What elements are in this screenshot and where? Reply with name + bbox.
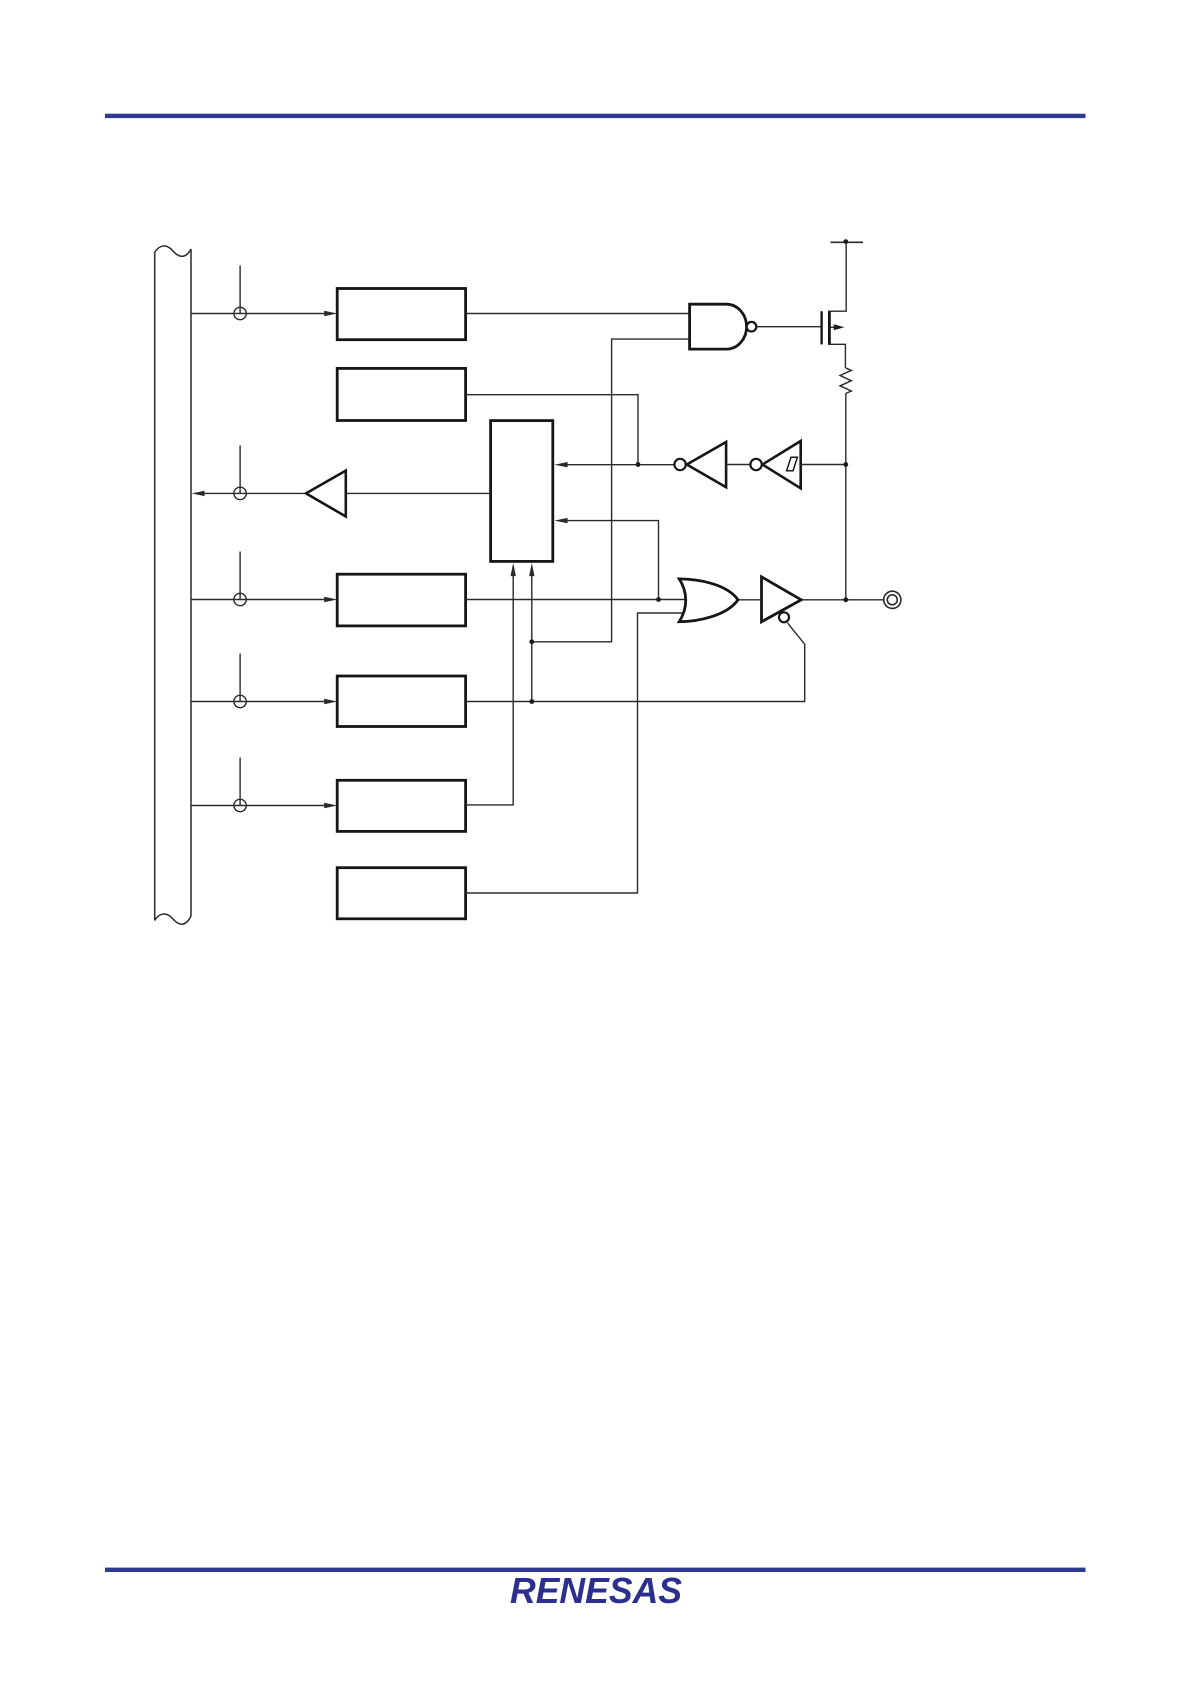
junction dot NAND-B / box4 feed (529, 639, 534, 644)
junction dot box3 line (656, 597, 661, 602)
wire mux output to read buffer (346, 492, 491, 494)
register box 4 (337, 676, 465, 727)
PMOS drain stub (829, 344, 845, 368)
junction dot output line (843, 597, 848, 602)
wire mux input 2 (566, 521, 659, 600)
header rule (105, 114, 1086, 118)
register box 1 (337, 289, 465, 340)
multiplexer block (491, 421, 553, 562)
NAND output bubble (747, 322, 757, 332)
tri-state control bubble (779, 612, 789, 622)
bus tap row 2 (from read buffer, arrow into bus) (202, 445, 306, 499)
bus tap row 5 (to box5) (191, 758, 328, 812)
bus tap row 4 (to box4) (191, 654, 328, 708)
Renesas logo (510, 1570, 682, 1611)
wire schmitt input from pad node (801, 464, 846, 466)
PMOS body arrow (831, 326, 837, 328)
read buffer triangle (306, 471, 346, 517)
PMOS transistor (822, 311, 830, 345)
wire box2 output (466, 395, 638, 465)
VCC junction dot (843, 239, 848, 244)
junction dot box2 line (636, 462, 641, 467)
I/O pad (884, 591, 901, 608)
PMOS source stub to VCC (829, 242, 846, 311)
register box 5 (337, 780, 465, 831)
footer rule (105, 1568, 1086, 1572)
wire box3 output to OR gate (466, 599, 690, 601)
schmitt input bubble (750, 459, 761, 470)
register box 6 (337, 868, 465, 919)
wire box1 to NAND input A (466, 313, 690, 315)
tri-state output buffer (762, 577, 802, 622)
register box 3 (337, 574, 465, 626)
pull-up resistor (840, 368, 851, 394)
inverter 1 input bubble (674, 459, 685, 470)
bus tap row 1 (to box1) (191, 266, 328, 320)
junction dot box4 line (529, 699, 534, 704)
wire box4 output to tri-state control (466, 623, 805, 702)
internal data bus (155, 246, 191, 924)
wire inverter chain to mux (566, 464, 674, 466)
wire NAND output to PMOS gate (756, 326, 820, 328)
wire pull-up node vertical (845, 394, 847, 600)
VCC bar (831, 241, 864, 243)
schmitt hysteresis symbol (787, 457, 798, 471)
NAND gate (690, 304, 747, 349)
wire box6 output to OR gate input 2 (465, 613, 689, 893)
junction dot schmitt input (843, 462, 848, 467)
bus tap row 3 (to box3) (191, 552, 328, 606)
svg-text:RENESAS: RENESAS (510, 1570, 682, 1611)
wire buffer output to pad (801, 599, 884, 601)
inverter 1 (687, 442, 726, 487)
wire OR gate output (738, 599, 762, 601)
wire between inverters (726, 464, 750, 466)
wire NAND input B (532, 339, 690, 642)
OR gate (679, 579, 738, 622)
wire box4 feed up to mux (531, 571, 533, 702)
wire box5 output up to mux (465, 571, 513, 805)
schmitt inverter (762, 441, 800, 488)
register box 2 (337, 368, 465, 420)
